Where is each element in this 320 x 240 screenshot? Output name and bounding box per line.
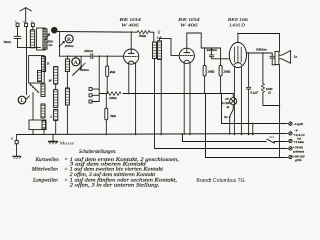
wire terminals riser (98, 56, 100, 101)
terminal A1 (14, 19, 19, 26)
loudspeaker La (275, 51, 298, 65)
svg-text:=: = (64, 168, 67, 173)
svg-text:=: = (64, 178, 67, 183)
svg-text:schwarz: schwarz (293, 149, 305, 153)
terminal A3 (30, 19, 35, 26)
terminal rot (289, 129, 305, 141)
svg-text:cm: cm (48, 43, 53, 47)
ground under E (13, 144, 21, 159)
capacitor 5000cm (256, 48, 276, 65)
bus blau (181, 133, 287, 143)
switch contacts row 2 (73, 66, 82, 75)
terminal A2 (22, 19, 28, 26)
antenna (20, 8, 31, 23)
bus cathode y94 (99, 93, 107, 95)
svg-text:Langwellen: Langwellen (32, 178, 58, 183)
resistor 200 Ohm inline (107, 92, 121, 100)
svg-text:1 auf dem zweiten bis vierten: 1 auf dem zweiten bis vierten Kontakt (70, 168, 164, 173)
svg-text:1MΩ: 1MΩ (207, 69, 215, 73)
capacitor 250cm series (84, 49, 94, 58)
svg-text:A: A (74, 60, 78, 66)
svg-text:5000cm: 5000cm (256, 48, 267, 52)
main bus (17, 134, 288, 135)
tube U3 RES164 (226, 17, 249, 67)
shield box K (29, 56, 45, 83)
wire tube3 side out (246, 52, 269, 54)
svg-text:-4 gelb: -4 gelb (294, 122, 304, 126)
wire secondary bottom down (160, 59, 162, 134)
wire tube1 legs (128, 64, 130, 94)
switch L knob (18, 96, 29, 104)
coil L2b (54, 84, 58, 130)
svg-text:250cm: 250cm (84, 49, 94, 53)
node bottom of input (18, 47, 41, 49)
coil L1 (41, 104, 52, 118)
svg-text:W 406: W 406 (121, 22, 140, 27)
terminal schwarz (289, 146, 305, 154)
wire tube2 plate up (186, 33, 188, 48)
svg-text:grün: grün (295, 158, 302, 162)
wire top bus to tube 1 grid cap (58, 31, 138, 34)
svg-text:Masse: Masse (58, 141, 75, 146)
svg-text:5kΩ: 5kΩ (110, 114, 116, 118)
wire drop 252 (252, 123, 254, 134)
wire transformer primary down (154, 59, 156, 149)
svg-text:Kurzwellen: Kurzwellen (34, 158, 59, 163)
coil L2 (43, 29, 47, 49)
svg-text:2kΩ: 2kΩ (110, 70, 116, 74)
svg-text:200Ω: 200Ω (109, 96, 117, 100)
tube U2 RE034 (176, 17, 199, 63)
variable arrow A (80, 63, 85, 69)
svg-text:2 offen, 3 in der unteren Stel: 2 offen, 3 in der unteren Stellung. (70, 184, 160, 189)
svg-text:La: La (293, 54, 298, 58)
switch Sb (51, 27, 58, 34)
wire plate bus 3 to speaker (238, 34, 280, 52)
switch contacts row 1 (29, 83, 38, 92)
svg-text:2 offen, 3 auf dem mittleren K: 2 offen, 3 auf dem mittleren Kontakt (70, 173, 156, 178)
coil under K (38, 71, 42, 82)
variable arrow L2 (45, 34, 50, 41)
coil K (42, 57, 50, 72)
svg-text:Sa: Sa (224, 115, 228, 119)
wire tube1 plate up (130, 32, 132, 49)
coil box antenna L2 (37, 28, 45, 50)
resistor 1000 Ohm (261, 53, 280, 106)
wire grid line tube1 (60, 55, 91, 57)
wire tube2 legs (183, 63, 185, 135)
svg-text:L: L (49, 114, 52, 118)
terminal 1 (89, 88, 99, 91)
wire stubs to bus (32, 130, 34, 135)
coil sec2 (65, 72, 69, 120)
wire box to lower box (32, 93, 34, 120)
svg-text:-4: -4 (295, 129, 298, 133)
tube U1 RE034 (118, 17, 141, 64)
coil M1 (41, 78, 53, 96)
wire tube3 legs (233, 67, 235, 134)
capacitor 0,1uF (246, 53, 259, 135)
capacitor 50cm (4, 36, 21, 47)
wire A1 down (17, 27, 19, 36)
svg-text:E: E (10, 136, 14, 141)
svg-text:250cm: 250cm (65, 44, 75, 48)
tuning capacitor A (72, 56, 81, 66)
svg-text:4000cm: 4000cm (206, 48, 217, 52)
wire tube3 plate up (237, 33, 239, 42)
resistor 70k (137, 31, 154, 38)
value 500cm (48, 40, 53, 47)
svg-text:L416 D: L416 D (228, 22, 245, 27)
resistor 2k (106, 55, 116, 93)
terminal 3 (89, 100, 99, 103)
terminal gelb (289, 122, 304, 126)
wire grid tube3 (212, 58, 230, 60)
svg-text:Schalterstellungen:: Schalterstellungen: (79, 150, 117, 155)
pilot lamp (222, 94, 237, 109)
bus schwarz (155, 148, 288, 150)
svg-text:=: = (64, 158, 67, 163)
coil antenna L1 (30, 30, 34, 48)
wire RC net (201, 47, 220, 49)
wire plate bus 2 (187, 33, 201, 48)
potentiometer 5k (105, 94, 117, 136)
node stub to coil column (66, 56, 68, 59)
transformer U 1:4 (153, 30, 162, 60)
wire R branch (59, 32, 61, 56)
variable arrow R (59, 41, 64, 46)
svg-text:L: L (20, 98, 24, 104)
coil M3 (54, 90, 58, 108)
terminal blau (289, 139, 305, 144)
wire secondary top to tube2 grid (159, 38, 179, 55)
wire right bus down (279, 65, 281, 158)
terminal gruen (289, 154, 305, 162)
coil sec1 (65, 59, 69, 72)
coil in lower box (42, 121, 46, 129)
ground Masse (49, 134, 75, 145)
svg-text:2MΩ: 2MΩ (223, 69, 231, 73)
resistor 1M (203, 48, 215, 94)
terminal 2 (89, 94, 99, 97)
svg-text:Brandt Columbus 7G.: Brandt Columbus 7G. (196, 178, 246, 184)
wire heater feed (222, 94, 288, 124)
svg-text:+4 blau: +4 blau (293, 140, 304, 144)
tuning capacitor R (65, 35, 75, 48)
svg-text:W 406: W 406 (180, 22, 199, 27)
resistor 2M (219, 48, 231, 94)
switch SzA (224, 105, 233, 135)
svg-text:Mittelwellen: Mittelwellen (31, 168, 59, 173)
svg-text:500cm: 500cm (80, 68, 90, 72)
lower shield box (29, 120, 46, 130)
coil M2 (54, 67, 58, 84)
wire A3 to coil (32, 27, 34, 30)
svg-text:70kΩ: 70kΩ (139, 34, 147, 38)
svg-text:50cm: 50cm (4, 40, 12, 44)
wire A2 down (26, 27, 28, 95)
svg-text:Sb: Sb (52, 29, 56, 33)
capacitor 4000cm (206, 48, 217, 59)
bus gruen (206, 94, 288, 158)
terminal E (10, 134, 18, 143)
